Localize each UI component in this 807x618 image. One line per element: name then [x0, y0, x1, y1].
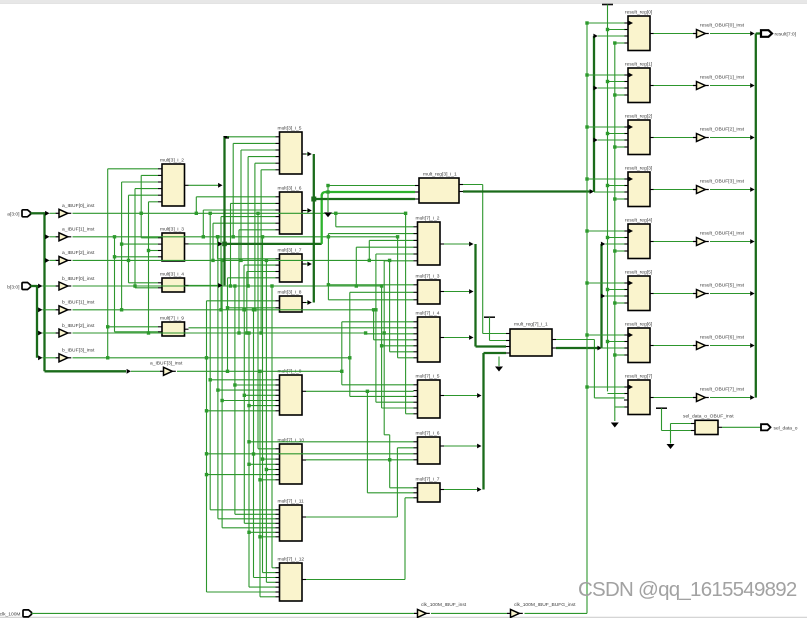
svg-text:mult[7]_i_7: mult[7]_i_7	[416, 477, 440, 483]
wire net b1 G3 branch	[374, 254, 413, 402]
wire net a2b G2l branch	[265, 259, 276, 583]
port sel_data_o	[761, 424, 798, 431]
wire net a1 G1 branch	[113, 235, 158, 332]
svg-text:a_IBUF[3]_inst: a_IBUF[3]_inst	[150, 361, 183, 367]
wire net a2_i5p3 G2u branch	[239, 150, 275, 262]
wire net b1_i6p4 G2u branch	[219, 217, 275, 312]
wire net b2_i5p6 G2u branch	[259, 170, 275, 335]
svg-text:a_IBUF[2]_inst: a_IBUF[2]_inst	[62, 250, 95, 256]
wire net b3 source row	[73, 357, 350, 359]
svg-text:mult[7]_i_4: mult[7]_i_4	[416, 311, 440, 317]
wire net a0 source row	[73, 212, 406, 214]
wire clock spine	[585, 21, 624, 613]
wire mult_reg[3] out to mult_reg[7]	[463, 185, 506, 334]
svg-text:result_reg[3]: result_reg[3]	[625, 165, 653, 171]
LUT mult[7]_i_12	[276, 557, 307, 601]
wire net a0 G2l branch	[209, 212, 276, 510]
svg-text:b_IBUF[0]_inst: b_IBUF[0]_inst	[62, 276, 95, 282]
bus mult[7] upper outputs (R1)	[444, 242, 506, 347]
bus result to port	[756, 34, 761, 398]
wire net b0 G3 branch	[380, 284, 414, 408]
buffer b_IBUF[1]_inst	[56, 300, 95, 314]
wire net b0_i5p4 G2u branch	[246, 157, 275, 288]
wire net b2 source row	[73, 332, 366, 334]
wire OBUF[3] out	[710, 187, 755, 192]
LUT mult[3]_i_7	[276, 248, 307, 282]
svg-text:b_IBUF[3]_inst: b_IBUF[3]_inst	[62, 348, 95, 354]
LUT mult[7]_i_10	[276, 438, 307, 484]
wire net a2 G2l branch	[220, 259, 275, 528]
wire net a2_i6p5 G2u branch	[211, 223, 275, 262]
wire net b2 G1 branch	[147, 202, 158, 335]
svg-text:b_IBUF[1]_inst: b_IBUF[1]_inst	[62, 300, 95, 306]
wire net b0 G3 branch	[355, 247, 414, 287]
wire net mult[7]_i_8 output	[306, 390, 414, 493]
svg-text:result_OBUF[4]_inst: result_OBUF[4]_inst	[700, 230, 745, 236]
svg-text:b_IBUF[2]_inst: b_IBUF[2]_inst	[62, 323, 95, 329]
svg-text:result_reg[5]: result_reg[5]	[625, 269, 653, 275]
wire net b1 source row	[73, 309, 374, 311]
svg-text:a_IBUF[0]_inst: a_IBUF[0]_inst	[62, 203, 95, 209]
port a[3:0]	[7, 210, 30, 218]
svg-text:mult[7]_i_12: mult[7]_i_12	[278, 557, 305, 563]
bus mult_reg[3] out D (bold)	[463, 189, 594, 194]
LUT mult[3]_i_8	[276, 290, 307, 312]
wire net b1_i7p2 G2u branch	[242, 265, 275, 311]
svg-text:mult[3]_i_6: mult[3]_i_6	[278, 186, 302, 192]
buffer result_OBUF[1]_inst	[693, 74, 745, 89]
svg-text:result_reg[0]: result_reg[0]	[625, 9, 653, 15]
LUT mult[7]_i_2	[414, 216, 445, 265]
wire net a1 G3 branch	[396, 235, 414, 358]
buffer a_IBUF[2]_inst	[56, 250, 95, 264]
buffer sel_data_o_OBUF_inst	[683, 414, 734, 435]
svg-text:result_reg[1]: result_reg[1]	[625, 61, 653, 67]
svg-text:result_OBUF[7]_inst: result_OBUF[7]_inst	[700, 386, 745, 392]
svg-text:a[3:0]: a[3:0]	[7, 212, 20, 218]
wire net b3 G2l branch	[205, 301, 414, 592]
LUT mult[7]_i_3	[414, 274, 445, 304]
wire OBUF[1] out	[710, 83, 755, 88]
wire net a2 G3 branch	[388, 259, 414, 352]
wire net b1_i5p5 G2u branch	[253, 163, 275, 311]
ground const0 at mult_reg[7]	[495, 357, 503, 372]
svg-text:result_reg[4]: result_reg[4]	[625, 217, 653, 223]
buffer result_OBUF[5]_inst	[693, 282, 745, 297]
buffer b_IBUF[0]_inst	[56, 276, 95, 290]
wire net b2 G3 branch	[364, 331, 414, 334]
svg-text:result_OBUF[0]_inst: result_OBUF[0]_inst	[700, 22, 745, 28]
buffer result_OBUF[3]_inst	[693, 178, 745, 193]
port b[3:0]	[7, 283, 30, 291]
svg-text:mult[7]_i_9: mult[7]_i_9	[160, 316, 184, 322]
svg-text:result_reg[7]: result_reg[7]	[625, 373, 653, 379]
wire result_reg[3] Q to OBUF	[654, 189, 694, 191]
register mult_reg[3]_i_1	[415, 172, 463, 203]
wire net a2 source row	[73, 259, 390, 261]
wire net b2 jog to mult[7]_i_7	[384, 333, 413, 488]
buffer result_OBUF[6]_inst	[693, 334, 745, 349]
wire net b1 G1 branch	[120, 182, 158, 312]
wire net b0 G2l branch	[233, 284, 275, 514]
watermark	[578, 578, 797, 601]
wire OBUF[6] out	[710, 343, 755, 348]
wire to mult_reg[3] pin1	[326, 184, 415, 187]
svg-text:CSDN @qq_1615549892: CSDN @qq_1615549892	[578, 578, 797, 601]
wire net b1b G2l branch	[252, 308, 276, 577]
LUT mult[7]_i_5	[414, 374, 445, 418]
wire net a1_i5p2 G2u branch	[232, 143, 276, 238]
svg-text:mult[3]_i_7: mult[3]_i_7	[278, 248, 302, 254]
svg-text:mult_reg[3]_i_1: mult_reg[3]_i_1	[423, 172, 457, 178]
wire net b0 G1 branch	[133, 189, 158, 288]
flip-flop result_reg[3]	[624, 165, 654, 206]
bus b[3:0] trunk	[31, 285, 38, 358]
flip-flop result_reg[4]	[624, 217, 654, 258]
wire sel OBUF out	[722, 426, 761, 428]
wire net a1b G2l branch	[261, 235, 276, 572]
wire net a1 G2l branch	[216, 235, 275, 519]
wire net b0b G2l branch	[270, 284, 275, 568]
svg-text:mult[3]_i_5: mult[3]_i_5	[278, 126, 302, 132]
svg-text:result_OBUF[1]_inst: result_OBUF[1]_inst	[700, 74, 745, 80]
wire a3 tap	[127, 369, 160, 374]
wire OBUF[2] out	[710, 135, 755, 140]
wire net b1 G2l branch	[243, 308, 276, 523]
buffer result_OBUF[2]_inst	[693, 126, 745, 141]
bus a[3:0] trunk	[31, 212, 127, 371]
buffer a_IBUF[1]_inst	[56, 227, 95, 241]
wire net mult[7]_i_11 output	[306, 448, 414, 517]
wire net b2 G3 branch	[383, 261, 414, 335]
buffer result_OBUF[4]_inst	[693, 230, 745, 245]
buffer result_OBUF[7]_inst	[693, 386, 745, 401]
wire clk BUFG to spine	[525, 612, 588, 614]
buffer a_IBUF[3]_inst	[150, 361, 183, 376]
wire net b0 source row	[73, 285, 382, 287]
frame bottom edge	[0, 616, 807, 618]
bus result D bits 0-3	[593, 34, 624, 192]
ground spine (R)	[611, 41, 625, 427]
wire net a0 G1 branch	[140, 175, 159, 237]
svg-text:mult[7]_i_2: mult[7]_i_2	[416, 216, 440, 222]
port result[7:0]	[761, 30, 797, 37]
svg-text:result_OBUF[6]_inst: result_OBUF[6]_inst	[700, 334, 745, 340]
svg-text:sel_data_o: sel_data_o	[774, 426, 798, 432]
LUT mult[3]_i_3	[158, 227, 189, 261]
bus mult[3] LUT outputs (P)	[189, 136, 416, 288]
wire net a0 G3 branch	[334, 212, 413, 227]
wire net a0_i6p1 G2u branch	[195, 197, 276, 215]
buffer result_OBUF[0]_inst	[693, 22, 745, 37]
bus mult_reg[7] out D (bold)	[556, 346, 602, 351]
svg-text:mult[7]_i_5: mult[7]_i_5	[416, 374, 440, 380]
wire net b3 G3 branch	[348, 292, 413, 396]
wire result_reg[4] Q to OBUF	[654, 241, 694, 243]
wire result_reg[7] Q to OBUF	[654, 397, 694, 399]
wire net mult[7]_i_12 output	[306, 498, 414, 580]
LUT mult[7]_i_6	[414, 431, 445, 464]
svg-text:result_reg[2]: result_reg[2]	[625, 113, 653, 119]
svg-text:b[3:0]: b[3:0]	[7, 284, 20, 290]
wire net a3_i7p4 G2u branch	[226, 278, 276, 373]
svg-text:clk_100M_IBUF_BUFG_inst: clk_100M_IBUF_BUFG_inst	[514, 602, 576, 608]
wire net a3 G3 branch	[340, 322, 413, 385]
ground const0 at sel OBUF	[667, 424, 692, 450]
svg-text:mult[7]_i_6: mult[7]_i_6	[416, 431, 440, 437]
wire net a3 source row	[177, 370, 342, 372]
wire OBUF[0] out	[710, 31, 755, 36]
buffer a_IBUF[0]_inst	[56, 203, 95, 217]
wire net a1 G3 branch	[327, 234, 414, 300]
wire clk IBUF to BUFG	[431, 612, 507, 614]
flip-flop result_reg[5]	[624, 269, 654, 310]
wire result_reg[5] Q to OBUF	[654, 293, 694, 295]
wire OBUF[7] out	[710, 395, 755, 400]
wire net b3 G1 branch	[106, 169, 158, 360]
wire net a0 G3 branch	[404, 212, 414, 414]
svg-text:mult[7]_i_11: mult[7]_i_11	[278, 499, 305, 505]
svg-text:mult[3]_i_4: mult[3]_i_4	[160, 272, 184, 278]
bus result D bits 4-6	[601, 242, 625, 348]
buffer clk_100M_IBUF_inst	[414, 602, 467, 617]
flip-flop result_reg[7]	[624, 373, 654, 414]
svg-text:mult[3]_i_8: mult[3]_i_8	[278, 290, 302, 296]
wire net b2_i6p6 G2u branch	[237, 230, 275, 335]
svg-text:result_reg[6]: result_reg[6]	[625, 321, 653, 327]
svg-text:mult[3]_i_3: mult[3]_i_3	[160, 227, 184, 233]
vcc const1 at mult_reg[7]	[484, 317, 506, 340]
LUT mult[7]_i_11	[276, 499, 307, 541]
wire net a3 G2l branch	[258, 370, 275, 597]
svg-text:mult[3]_i_2: mult[3]_i_2	[160, 158, 184, 164]
wire net a0b G2l branch	[256, 212, 275, 449]
frame top bar	[0, 0, 807, 3]
svg-text:result_OBUF[2]_inst: result_OBUF[2]_inst	[700, 126, 745, 132]
LUT mult[3]_i_4	[158, 272, 189, 292]
bus mult[3] col-B outputs (Q)	[306, 152, 415, 305]
LUT mult[7]_i_8	[276, 369, 307, 415]
svg-text:mult[7]_i_3: mult[7]_i_3	[416, 274, 440, 280]
wire net a1_i6p3 G2u branch	[202, 210, 276, 239]
wire net b2 G2l branch	[247, 331, 413, 587]
svg-text:result_OBUF[3]_inst: result_OBUF[3]_inst	[700, 178, 745, 184]
port clk_100M	[0, 610, 32, 618]
wire result_reg[0] Q to OBUF	[654, 33, 694, 35]
wire net a2 G3 branch	[368, 240, 414, 262]
vcc const1 at sel OBUF	[656, 408, 691, 430]
LUT mult[3]_i_5	[276, 126, 307, 174]
wire net a2 G1 branch	[127, 195, 158, 283]
svg-text:clk_100M: clk_100M	[0, 611, 21, 617]
LUT mult[7]_i_9	[158, 316, 189, 336]
wire mult_reg[7] out to result_reg[7] D	[556, 340, 625, 398]
wire result_reg[2] Q to OBUF	[654, 137, 694, 139]
LUT mult[7]_i_4	[414, 311, 445, 362]
register mult_reg[7]_i_1	[506, 322, 556, 356]
svg-text:result[7:0]: result[7:0]	[775, 32, 797, 38]
buffer b_IBUF[3]_inst	[56, 348, 95, 362]
wire net a1 source row	[73, 236, 398, 238]
wire net b0_i6p2 G2u branch	[229, 203, 276, 287]
wire clk_100M to IBUF	[32, 612, 415, 614]
flip-flop result_reg[2]	[624, 113, 654, 154]
buffer clk_100M_IBUF_BUFG_inst	[507, 602, 576, 617]
LUT mult[3]_i_6	[276, 186, 307, 234]
svg-text:sel_data_o_OBUF_inst: sel_data_o_OBUF_inst	[683, 414, 734, 420]
bus b taps to IBUFs	[38, 284, 56, 361]
flip-flop result_reg[6]	[624, 321, 654, 362]
wire net b2_i7p3 G2u branch	[245, 272, 275, 335]
svg-text:result_OBUF[5]_inst: result_OBUF[5]_inst	[700, 282, 745, 288]
flip-flop result_reg[1]	[624, 61, 654, 102]
svg-text:mult[7]_i_10: mult[7]_i_10	[278, 438, 305, 444]
LUT mult[3]_i_2	[158, 158, 189, 206]
ground const0 at mult_reg[3]	[324, 186, 332, 218]
svg-text:clk_100M_IBUF_inst: clk_100M_IBUF_inst	[421, 602, 467, 608]
bus mult[7] lower outputs (R2)	[444, 353, 506, 492]
bus a taps to IBUFs	[45, 211, 56, 263]
wire OBUF[5] out	[710, 291, 755, 296]
wire net a1_i7p1 G2u branch	[216, 235, 276, 259]
LUT mult[7]_i_7	[414, 477, 445, 502]
vcc spine (CE)	[602, 5, 625, 394]
wire result_reg[6] Q to OBUF	[654, 345, 694, 347]
wire OBUF[4] out	[710, 239, 755, 244]
svg-text:mult_reg[7]_i_1: mult_reg[7]_i_1	[514, 322, 548, 328]
svg-text:a_IBUF[1]_inst: a_IBUF[1]_inst	[62, 227, 95, 233]
wire net b1 G3 branch	[372, 308, 414, 340]
buffer b_IBUF[2]_inst	[56, 323, 95, 337]
wire result_reg[1] Q to OBUF	[654, 85, 694, 87]
flip-flop result_reg[0]	[624, 9, 654, 50]
wire net mult[7]_i_9 output	[189, 327, 414, 329]
wire net mult[7]_i_10 output	[306, 458, 414, 461]
